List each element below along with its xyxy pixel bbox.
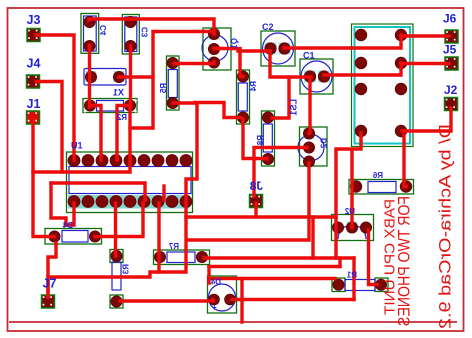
connector J3 bbox=[27, 29, 40, 42]
wire relay to J5 bbox=[401, 62, 449, 65]
connector J5 bbox=[445, 57, 458, 70]
resistor R2 bbox=[83, 99, 137, 113]
wire R2 body jog to U1 pin4 bbox=[117, 106, 128, 161]
wire staircase to U1 pin10 bbox=[51, 183, 74, 225]
svg-text:R7: R7 bbox=[168, 242, 179, 251]
regulator U2 bbox=[332, 215, 374, 241]
wire bus266 bbox=[209, 265, 340, 268]
wire bus266 link up bbox=[338, 258, 341, 267]
svg-text:J5: J5 bbox=[443, 43, 457, 57]
transistor Q1 bbox=[202, 28, 231, 70]
resistor R6 bbox=[349, 180, 414, 195]
wire C2 left down to C1 row bbox=[270, 52, 311, 77]
connector U1 bbox=[67, 152, 193, 213]
wire J1 to D4 left bbox=[33, 119, 54, 237]
wire R1 left bus bbox=[209, 277, 335, 280]
svg-text:C4: C4 bbox=[99, 25, 108, 36]
wire R5 bottom to R4 bottom bbox=[195, 103, 240, 118]
svg-text:J2: J2 bbox=[444, 83, 458, 97]
wire C3 bottom to R2 right to U1 pin5 bbox=[128, 46, 132, 160]
svg-text:LS1: LS1 bbox=[289, 99, 299, 116]
resistor R7 bbox=[154, 250, 210, 265]
wire bus258 down to bottom bus bbox=[352, 258, 355, 300]
wire bus266 drop to D4c bbox=[207, 267, 210, 284]
svg-text:+: + bbox=[212, 303, 217, 312]
wire R7 right bus bbox=[204, 256, 354, 259]
wire C4 bottom through X1 left to R2 left bbox=[88, 46, 91, 108]
connector J1 bbox=[27, 111, 40, 124]
svg-text:C3: C3 bbox=[141, 27, 150, 38]
wire J7 upper jog bbox=[48, 243, 56, 297]
U1 pads row1 bbox=[68, 155, 192, 167]
svg-text:FOR TWO PHONES: FOR TWO PHONES bbox=[396, 196, 414, 326]
wire D2 mid to J8 bbox=[254, 148, 307, 197]
wire bus y172 to U1 pin5 bbox=[33, 158, 130, 172]
wire bus y217 bbox=[186, 215, 336, 218]
wire U2 right to R1 right bbox=[369, 230, 378, 285]
connector J7 bbox=[42, 295, 55, 308]
svg-text:C2: C2 bbox=[262, 22, 274, 32]
svg-text:J8: J8 bbox=[249, 179, 263, 193]
capacitor C4 bbox=[81, 14, 99, 54]
wire Q1 mid to R4 top bbox=[214, 49, 243, 77]
board bottom edge bbox=[9, 321, 457, 323]
svg-text:J1: J1 bbox=[27, 97, 41, 111]
connector J2 bbox=[445, 98, 458, 111]
wire relay to R6 right bbox=[404, 135, 406, 187]
svg-text:R2: R2 bbox=[116, 113, 127, 122]
wire C1 right to relay bbox=[324, 63, 401, 75]
wire U1 pin16 stub bbox=[162, 186, 165, 200]
resistor R8 bbox=[262, 111, 275, 166]
svg-text:D4: D4 bbox=[62, 221, 73, 230]
wire J8 to J7 net bbox=[254, 203, 257, 217]
wire D2 bottom down bbox=[188, 163, 309, 240]
wire C1 left to D2 top bbox=[309, 78, 310, 134]
wire link row2 pads y183 bbox=[51, 183, 145, 200]
wire bottom bus y299.5 bbox=[232, 298, 354, 301]
wire U1 pin19 vertical bbox=[48, 201, 186, 297]
resistor R1 bbox=[332, 278, 388, 292]
transistor D2 bbox=[298, 127, 327, 167]
connector J8 bbox=[250, 195, 263, 208]
svg-text:J4: J4 bbox=[27, 57, 41, 71]
connector J6 bbox=[445, 30, 458, 43]
svg-text:Q1: Q1 bbox=[230, 38, 239, 49]
svg-text:R4: R4 bbox=[249, 81, 258, 92]
svg-text:C1: C1 bbox=[303, 51, 315, 61]
svg-text:U1: U1 bbox=[71, 141, 83, 151]
wire R7 left to U1 pin17 bbox=[157, 203, 160, 272]
svg-text:U2: U2 bbox=[344, 207, 355, 216]
wire branch to C2 left bbox=[238, 49, 270, 52]
capacitor C1 bbox=[300, 59, 333, 94]
svg-text:R5: R5 bbox=[159, 83, 168, 94]
wire R6 left through to U2 mid bbox=[350, 150, 353, 228]
svg-text:D/ by Achira-OrCad 9.2: D/ by Achira-OrCad 9.2 bbox=[436, 124, 455, 329]
capacitor D4c bbox=[208, 276, 237, 313]
resistor R3 bbox=[110, 250, 123, 309]
wire relay pin5 to U2 left bbox=[336, 133, 361, 258]
wire drop to board edge bbox=[240, 279, 243, 323]
resistor R4 bbox=[237, 70, 250, 124]
wire top net C4-C3-Q1 bbox=[89, 19, 214, 34]
svg-text:J6: J6 bbox=[443, 12, 457, 26]
svg-text:X1: X1 bbox=[113, 88, 124, 98]
svg-text:J7: J7 bbox=[43, 277, 57, 291]
wire R3 bottom to D4cap left bbox=[120, 300, 213, 302]
wire R4 bottom to R8 bottom bbox=[243, 119, 267, 159]
relay K1 bbox=[352, 24, 414, 147]
crystal X1 bbox=[84, 69, 126, 86]
svg-text:R3: R3 bbox=[122, 264, 131, 275]
wire J4 down bbox=[36, 82, 62, 173]
svg-text:D4: D4 bbox=[210, 278, 221, 287]
wire branch down to R8 top bbox=[272, 77, 289, 118]
wire J2 to relay bbox=[402, 108, 451, 131]
wire vertical net x158 bbox=[130, 32, 214, 129]
capacitor C2 bbox=[261, 31, 295, 66]
wire R5 top to Q1 bottom bbox=[174, 62, 214, 64]
wire U1 pin4 down to R3 top bbox=[114, 203, 117, 256]
wire relay to J6 bbox=[401, 34, 449, 37]
svg-text:R6: R6 bbox=[372, 171, 383, 180]
wire link bus217 to bus258 bbox=[311, 217, 314, 258]
svg-text:J3: J3 bbox=[27, 13, 41, 27]
wire R2 left jog to U1 pin3 bbox=[92, 106, 101, 161]
svg-text:D2: D2 bbox=[320, 138, 329, 149]
wire X1 right to node bbox=[119, 75, 153, 78]
svg-text:R1: R1 bbox=[346, 271, 357, 280]
resistor R5 bbox=[167, 56, 180, 110]
wire R5 bottom to U1 pin18 bbox=[173, 103, 197, 203]
diode D4 bbox=[45, 229, 102, 245]
U1 pads row2 bbox=[68, 196, 192, 208]
wire D4 right to U1 pin6 bbox=[95, 203, 143, 237]
wire J3 to U1 pin1 bbox=[36, 35, 74, 160]
svg-text:R8: R8 bbox=[256, 135, 265, 146]
connector J4 bbox=[27, 75, 40, 88]
capacitor C3 bbox=[122, 15, 139, 55]
wire C2 right to relay bbox=[284, 35, 401, 48]
